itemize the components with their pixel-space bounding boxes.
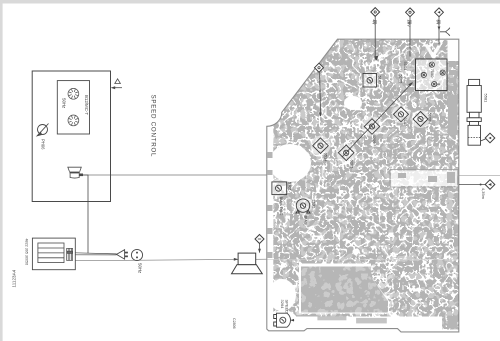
scanner gray band left [0, 4, 3, 341]
transistor circle c [440, 70, 445, 75]
svg-text:6514: 6514 [324, 153, 329, 163]
scanner gray band top [0, 0, 500, 4]
diode 5108 diamond [413, 112, 428, 127]
svg-text:20V: 20V [407, 20, 412, 28]
diode 6206 diamond [364, 119, 380, 135]
wire aerial to diamond [481, 139, 486, 141]
aerial rod assembly [467, 79, 481, 145]
wire TP 20V down [408, 17, 411, 57]
svg-text:4822 395 30056: 4822 395 30056 [25, 239, 29, 266]
svg-text:5104: 5104 [403, 62, 408, 72]
mains plug [117, 250, 125, 259]
mains cord [75, 253, 116, 255]
wire: speaker to transformer [82, 175, 88, 253]
svg-text:7050: 7050 [430, 69, 435, 79]
test point TP 20V [406, 8, 415, 17]
white V trace top-right [426, 45, 440, 57]
svg-text:6206: 6206 [372, 135, 377, 145]
mains transformer box [32, 238, 75, 270]
reference triangle marker [115, 79, 121, 84]
PCB board outline [267, 39, 459, 332]
wire arrow into loudspeaker [234, 258, 238, 261]
svg-text:6205: 6205 [350, 160, 355, 170]
svg-text:3264: 3264 [280, 300, 285, 310]
speed control unit box [32, 71, 110, 202]
diagonal pointer line [342, 83, 412, 157]
diode 6514 diamond [313, 138, 329, 154]
small speaker in box [68, 167, 83, 178]
wire TP 6V down to aerial node [437, 17, 440, 46]
svg-text:2132: 2132 [312, 200, 317, 210]
connector block in transformer box [67, 248, 73, 260]
adjustment wheel bottom (spoked) [68, 115, 79, 126]
pot 3264 SPEED [274, 313, 291, 327]
wire: speaker line to PCB (y=175) [82, 174, 267, 176]
wire: long bottom line to loudspeaker (y=260) [76, 259, 267, 261]
svg-text:50Hz: 50Hz [138, 263, 143, 273]
svg-text:PH06: PH06 [41, 139, 46, 150]
pads right of IC box [449, 62, 456, 91]
svg-text:6V: 6V [436, 20, 441, 25]
aerial Y symbol [440, 28, 450, 36]
strobe lamp PH06 symbol [37, 124, 48, 136]
svg-text:11123A4: 11123A4 [12, 269, 17, 287]
svg-text:5103: 5103 [378, 76, 383, 86]
loudspeaker [232, 253, 263, 274]
arrow at speed pot [291, 319, 294, 321]
svg-text:3102: 3102 [403, 118, 408, 128]
arrow from diamond down to wire [259, 244, 261, 253]
trimmer 5103 [363, 74, 377, 88]
white blob left-center [269, 144, 311, 182]
motor assembly inner box [57, 81, 89, 134]
svg-text:SPEED: SPEED [285, 300, 290, 314]
component halo patches [270, 60, 447, 215]
gray bar strip 2 [356, 318, 387, 324]
IC module box 7050 [416, 59, 448, 91]
transistor circle a [429, 62, 434, 67]
mains socket 50Hz [131, 249, 142, 260]
transformer winding lines [38, 243, 64, 263]
svg-text:5581: 5581 [484, 94, 489, 104]
svg-text:B12/MC-T: B12/MC-T [84, 95, 89, 115]
adjustment wheel top (spoked) [68, 88, 79, 99]
wire from diamond down into board [320, 72, 321, 116]
test point diamond right 4,35m [485, 180, 495, 190]
gray bar strip 1 [317, 316, 346, 320]
faint line over plane [267, 258, 458, 260]
arrow into box edge [113, 87, 122, 89]
wire 4,35m to PCB [459, 184, 485, 186]
svg-text:C2806: C2806 [232, 318, 236, 329]
wire TP 4V down [374, 16, 378, 59]
svg-text:SPEED CONTROL: SPEED CONTROL [150, 95, 157, 158]
pad column right edge [448, 95, 458, 135]
test point diamond upper-left of PCB [315, 63, 324, 72]
diode 6205 diamond [338, 145, 354, 161]
trimmer 5301 BIAS OSC [272, 182, 287, 195]
white margin strips [266, 317, 442, 334]
svg-text:5108: 5108 [428, 113, 433, 123]
test point diamond near loudspeaker [255, 235, 264, 244]
ground plane bottom center [299, 264, 389, 314]
svg-text:BIAS OSC: BIAS OSC [279, 197, 284, 216]
transistor circle d [432, 82, 440, 87]
pads in left margin [268, 152, 297, 261]
transistor circle b [421, 72, 426, 77]
test point TP 4V [371, 8, 380, 17]
PCB copper texture [266, 38, 460, 335]
svg-text:BIAS: BIAS [304, 216, 309, 225]
svg-text:4V: 4V [372, 20, 377, 25]
test point TP 6V [435, 8, 444, 17]
diode 3102 diamond [394, 107, 409, 122]
wire: right stub of y=175 line [459, 175, 500, 177]
test point diamond at aerial [485, 133, 495, 143]
svg-text:4,35m: 4,35m [481, 188, 486, 200]
svg-text:50Hz: 50Hz [62, 98, 67, 108]
pot 2132 BIAS [296, 199, 310, 213]
aerial dashed line [468, 137, 481, 139]
coil outline rect [390, 169, 458, 187]
svg-text:5301: 5301 [288, 182, 293, 192]
svg-text:5105: 5105 [399, 75, 404, 85]
